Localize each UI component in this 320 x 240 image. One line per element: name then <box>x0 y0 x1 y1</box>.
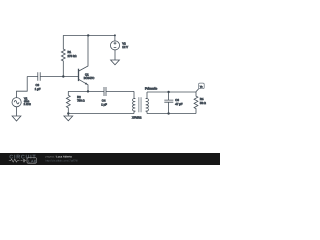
node (C6 top) <box>167 91 169 93</box>
node (C6 bottom) <box>167 112 169 114</box>
node (emitter junction) <box>87 90 89 92</box>
svg-text:270 kΩ: 270 kΩ <box>68 54 77 58</box>
svg-text:1 µF: 1 µF <box>35 87 41 91</box>
wire (emitter node rail) <box>68 90 134 92</box>
svg-text:http://circuitlab.com/c7qt579/: http://circuitlab.com/c7qt579/ <box>46 159 79 162</box>
svg-text:LAB: LAB <box>28 158 37 163</box>
svg-text:1 kHz: 1 kHz <box>24 102 32 106</box>
svg-text:proyect / Luca Abierto: proyect / Luca Abierto <box>46 156 73 159</box>
capacitor C3 <box>27 72 78 91</box>
svg-text:750 Ω: 750 Ω <box>77 99 85 103</box>
wire (secondary top) <box>147 91 196 93</box>
node (rail corner at V2) <box>114 34 116 36</box>
transformer XFMR2 <box>132 91 149 119</box>
ground (below V1) <box>12 116 21 121</box>
capacitor C6 <box>164 92 182 114</box>
wire (secondary bottom) <box>147 113 196 115</box>
voltage source V2 <box>110 35 128 60</box>
svg-text:Primario: Primario <box>145 87 157 91</box>
svg-text:XFMR2: XFMR2 <box>132 115 142 119</box>
svg-text:12 V: 12 V <box>122 45 128 49</box>
wire (top +12V rail) <box>63 34 115 36</box>
resistor R2 <box>66 91 84 113</box>
CircuitLab logo wordmark <box>9 154 37 163</box>
svg-text:BC547C: BC547C <box>84 76 95 80</box>
wire (ground rail to transformer primary bottom) <box>68 113 134 115</box>
node (R2 / ground rail junction) <box>67 112 69 114</box>
svg-text:1 µF: 1 µF <box>101 103 107 107</box>
footer bar <box>0 153 220 165</box>
ground (below R2) <box>64 114 73 121</box>
svg-text:47 µF: 47 µF <box>175 102 182 106</box>
node (collector junction on rail) <box>87 34 89 36</box>
node A (base junction R1/C3) <box>62 75 64 77</box>
voltage source V1 <box>12 77 31 117</box>
net flag Vo <box>196 83 204 92</box>
transistor Q1 <box>79 35 95 91</box>
resistor R1 <box>61 35 76 76</box>
svg-text:50 Ω: 50 Ω <box>200 101 206 105</box>
footer project text <box>46 156 79 163</box>
capacitor C4 <box>101 87 107 107</box>
resistor R4 <box>194 92 206 114</box>
ground (below V2) <box>111 60 120 65</box>
